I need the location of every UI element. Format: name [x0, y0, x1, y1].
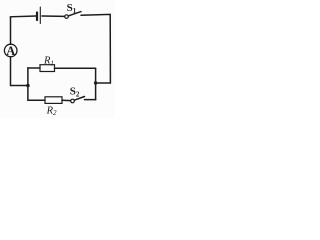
battery B (long plate) [39, 7, 41, 24]
wire R1 to right rail [55, 67, 96, 69]
wire R2 to switch S2 [62, 99, 71, 101]
wire S1 to top-right corner and down right side [81, 14, 110, 83]
wire ammeter down to junction [11, 57, 28, 86]
switch S2 lever [74, 97, 84, 101]
wire right connector to parallel block [96, 82, 111, 84]
junction node left [26, 84, 30, 88]
right branch vertical wire [95, 68, 97, 100]
switch S1 lever [68, 12, 81, 16]
wire top-left to battery [11, 16, 37, 18]
wire battery to switch S1 [42, 15, 65, 17]
svg-text:A: A [6, 44, 15, 58]
battery B (short plate) [36, 13, 38, 21]
wire left side down to ammeter [10, 17, 12, 44]
switch S2 pivot circle [71, 99, 75, 103]
left branch vertical wire [27, 68, 29, 101]
ammeter A circle [4, 44, 17, 57]
junction node right [94, 81, 97, 84]
resistor R2 box [45, 97, 62, 104]
wire left rail to R1 [28, 67, 40, 69]
switch S1 pivot circle [65, 15, 69, 19]
wire S2 to right rail [85, 99, 96, 101]
wire left rail to R2 [28, 99, 45, 101]
resistor R1 box [40, 65, 55, 72]
